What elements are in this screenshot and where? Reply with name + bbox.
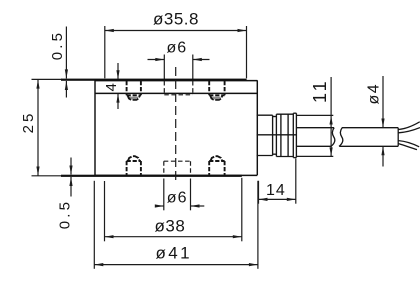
svg-text:ø6: ø6 xyxy=(167,40,188,57)
svg-text:ø6: ø6 xyxy=(167,189,188,206)
svg-text:0.5: 0.5 xyxy=(56,199,73,229)
svg-text:4: 4 xyxy=(103,83,120,91)
svg-text:11: 11 xyxy=(310,78,330,103)
svg-text:ø35.8: ø35.8 xyxy=(153,10,199,29)
svg-text:ø38: ø38 xyxy=(155,216,186,235)
svg-text:0.5: 0.5 xyxy=(49,30,66,60)
svg-text:14: 14 xyxy=(266,182,286,199)
svg-text:ø4: ø4 xyxy=(366,83,383,105)
svg-text:ø41: ø41 xyxy=(156,244,193,263)
svg-text:25: 25 xyxy=(20,111,37,134)
